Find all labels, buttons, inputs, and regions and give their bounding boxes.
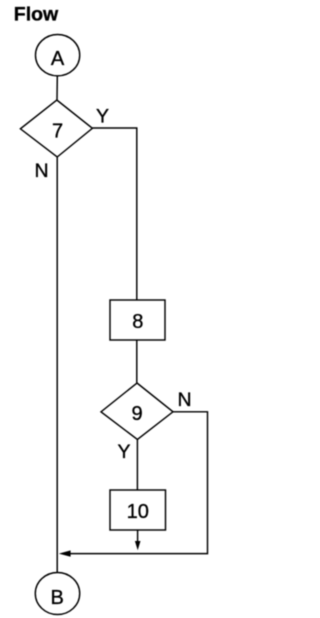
svg-text:N: N — [34, 160, 48, 182]
svg-text:9: 9 — [131, 403, 142, 425]
svg-text:7: 7 — [52, 121, 63, 143]
svg-text:Y: Y — [96, 105, 109, 127]
svg-text:N: N — [178, 389, 192, 411]
svg-text:Flow: Flow — [14, 4, 59, 26]
svg-text:A: A — [51, 48, 65, 70]
svg-text:B: B — [51, 587, 64, 609]
svg-text:10: 10 — [127, 501, 149, 523]
svg-text:8: 8 — [132, 311, 143, 333]
svg-text:Y: Y — [117, 441, 130, 463]
